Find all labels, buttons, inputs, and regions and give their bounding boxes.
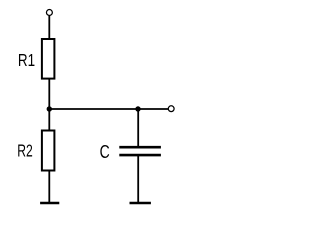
capacitor C bottom plate xyxy=(119,154,161,157)
junction node A xyxy=(47,106,52,111)
svg-text:R2: R2 xyxy=(17,141,33,161)
junction node B xyxy=(135,106,140,111)
wire R2 bottom to left ground xyxy=(48,171,50,204)
resistor R1 (box body) xyxy=(42,39,55,79)
capacitor C top plate xyxy=(119,146,161,149)
ground (right, under C) xyxy=(130,202,151,205)
wire R1 bottom to node A xyxy=(48,79,50,110)
wire capacitor bottom plate to right ground xyxy=(137,155,139,203)
ground (left, under R2) xyxy=(40,202,59,205)
wire input terminal to R1 top xyxy=(48,16,50,39)
wire node B to capacitor top plate xyxy=(137,109,139,148)
wire node A to node B to output terminal (horizontal) xyxy=(49,108,168,110)
wire node A to R2 top xyxy=(48,109,50,131)
svg-text:R1: R1 xyxy=(18,50,35,70)
resistor R2 (box body) xyxy=(42,131,55,171)
terminal output (open circle) xyxy=(168,106,174,112)
svg-text:C: C xyxy=(100,142,110,162)
terminal input (open circle) xyxy=(46,10,52,16)
